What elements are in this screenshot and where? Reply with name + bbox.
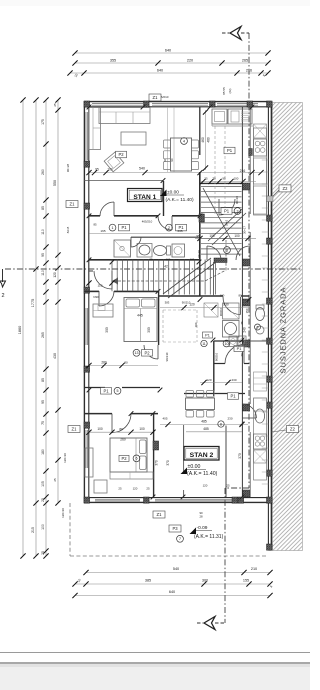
svg-text:120×30: 120×30 bbox=[63, 453, 67, 463]
interior vdim kitchen bbox=[205, 110, 207, 170]
svg-text:1775: 1775 bbox=[31, 299, 35, 307]
stairs walk line bbox=[118, 240, 226, 281]
kitchen sink unit bbox=[228, 109, 252, 124]
door bedroom1-hall bbox=[144, 345, 158, 359]
svg-text:300: 300 bbox=[147, 327, 151, 333]
hatched band SUSJEDNA ZGRADA bbox=[272, 103, 302, 551]
svg-text:9: 9 bbox=[257, 325, 259, 329]
svg-text:180: 180 bbox=[41, 449, 45, 455]
svg-text:445: 445 bbox=[137, 313, 143, 317]
wall block stairhall bbox=[199, 214, 204, 222]
label P1 hall b bbox=[176, 224, 187, 231]
svg-text:42: 42 bbox=[164, 264, 168, 268]
exterior wall top bbox=[84, 101, 271, 103]
svg-text:370: 370 bbox=[155, 460, 159, 466]
label P3 circ7 bbox=[169, 525, 181, 532]
footer gray band bbox=[0, 664, 310, 690]
svg-text:160: 160 bbox=[220, 294, 225, 298]
window glazing bottom bbox=[95, 498, 140, 500]
svg-text:P1: P1 bbox=[205, 334, 210, 338]
svg-text:85 55: 85 55 bbox=[222, 87, 226, 95]
svg-text:165: 165 bbox=[100, 229, 105, 233]
label P1 hall a bbox=[119, 224, 130, 231]
svg-text:430: 430 bbox=[53, 353, 57, 359]
wall dining right bbox=[225, 426, 227, 498]
svg-text:265: 265 bbox=[41, 332, 45, 338]
bedroom2 dim row bbox=[89, 431, 153, 433]
stairs lower flight steps bbox=[111, 260, 113, 292]
label P1 stair bbox=[221, 208, 232, 215]
svg-text:100: 100 bbox=[139, 427, 145, 431]
circled 3 stairs bbox=[224, 247, 231, 254]
svg-text:95: 95 bbox=[222, 177, 226, 181]
toilet bath2 bbox=[256, 308, 265, 321]
right wall coursing bbox=[262, 159, 269, 161]
wall bedroom1 top bbox=[84, 290, 99, 292]
svg-text:80: 80 bbox=[238, 294, 242, 298]
section line 1-1 vertical bbox=[248, 33, 250, 488]
door bath2 main bbox=[223, 297, 241, 315]
svg-text:-0.09: -0.09 bbox=[197, 525, 208, 531]
wall living/hall horiz bbox=[84, 180, 163, 182]
svg-text:8: 8 bbox=[220, 422, 222, 426]
svg-text:P3: P3 bbox=[172, 526, 178, 531]
wall block bedroom2 bbox=[153, 441, 159, 450]
wall bath2 bottom bbox=[214, 340, 249, 342]
elevation STAN1 bbox=[160, 190, 167, 197]
armchair bbox=[104, 152, 124, 172]
toilet bath1 bbox=[154, 246, 167, 256]
svg-text:100: 100 bbox=[234, 234, 240, 238]
top dim row 2 bbox=[75, 62, 268, 64]
sofa L vertical bbox=[89, 108, 101, 150]
svg-text:230: 230 bbox=[227, 416, 232, 420]
svg-text:95: 95 bbox=[41, 400, 45, 404]
dashed overhang outline bbox=[69, 503, 71, 556]
svg-text:405: 405 bbox=[162, 416, 167, 420]
wall kitchen double b bbox=[249, 107, 251, 214]
kitchen2 fridge bbox=[254, 450, 267, 463]
svg-text:90×28: 90×28 bbox=[66, 164, 70, 173]
svg-text:(A.K.= 11.40): (A.K.= 11.40) bbox=[166, 197, 194, 203]
bottom dim row 3 bbox=[75, 595, 270, 597]
svg-text:10: 10 bbox=[225, 342, 229, 346]
svg-text:95: 95 bbox=[41, 253, 45, 257]
svg-text:N90: N90 bbox=[93, 295, 99, 299]
wall hall3 horiz bbox=[184, 393, 245, 395]
svg-text:P1: P1 bbox=[230, 394, 236, 399]
label P2 circ6 bed2 bbox=[119, 455, 129, 461]
svg-text:2: 2 bbox=[237, 209, 239, 213]
exterior wall bottom bbox=[84, 501, 271, 503]
svg-text:640: 640 bbox=[157, 69, 163, 73]
svg-text:640: 640 bbox=[165, 49, 171, 53]
svg-text:110: 110 bbox=[41, 229, 45, 235]
dining dim row2 bbox=[186, 431, 242, 433]
door stair top bbox=[219, 199, 235, 215]
svg-text:7: 7 bbox=[179, 537, 181, 541]
terrace right wall bbox=[268, 502, 271, 504]
door kitchen-dining bbox=[242, 404, 256, 418]
wall laundry left bbox=[213, 341, 215, 396]
wall v living-right bbox=[163, 181, 165, 216]
svg-text:±0.00: ±0.00 bbox=[167, 189, 179, 195]
circled 4 bbox=[181, 138, 188, 145]
kitchen2 hob bbox=[254, 434, 267, 449]
svg-text:95: 95 bbox=[196, 234, 200, 238]
section marker left bbox=[2, 269, 4, 282]
svg-text:Z2: Z2 bbox=[290, 427, 296, 432]
svg-text:90/210: 90/210 bbox=[219, 307, 223, 316]
svg-text:25: 25 bbox=[53, 478, 57, 482]
svg-text:230: 230 bbox=[223, 303, 229, 307]
kitchen right strip bbox=[254, 128, 267, 215]
kitchen fridge bbox=[254, 124, 267, 138]
svg-text:640: 640 bbox=[169, 590, 175, 594]
door hall-kitchen bbox=[158, 216, 172, 230]
stairs upper flight steps bbox=[201, 186, 242, 188]
svg-text:150: 150 bbox=[245, 308, 249, 313]
svg-text:85: 85 bbox=[41, 206, 45, 210]
svg-text:90/210: 90/210 bbox=[165, 352, 169, 361]
svg-text:2: 2 bbox=[1, 293, 4, 299]
dining table 2 bbox=[186, 398, 215, 410]
circled 9 toilet bbox=[255, 324, 261, 330]
svg-text:STAN 2: STAN 2 bbox=[190, 452, 214, 459]
coffee table bbox=[121, 132, 146, 145]
shower bath2b bbox=[204, 303, 218, 317]
svg-text:Z1: Z1 bbox=[157, 512, 163, 517]
washbasin bath2 bbox=[223, 321, 240, 338]
wall hall top bbox=[89, 215, 100, 217]
door bedroom2 bbox=[112, 414, 131, 433]
svg-text:260: 260 bbox=[120, 438, 126, 442]
left dim chain 3 bbox=[45, 100, 47, 556]
svg-text:550: 550 bbox=[53, 180, 57, 186]
window label Z1 left b bbox=[68, 426, 80, 433]
svg-text:95: 95 bbox=[149, 257, 153, 261]
wall stairhall top bbox=[200, 182, 242, 184]
svg-text:540: 540 bbox=[173, 567, 179, 571]
top dim row 3 bbox=[70, 72, 268, 74]
wall bedroom2 top bbox=[84, 413, 112, 415]
washer dryer bbox=[229, 336, 237, 347]
svg-text:100: 100 bbox=[97, 427, 103, 431]
wardrobe 2 bbox=[85, 448, 93, 477]
door stair bottom b bbox=[236, 246, 250, 260]
svg-text:3: 3 bbox=[226, 248, 228, 252]
svg-text:85: 85 bbox=[41, 378, 45, 382]
svg-text:215: 215 bbox=[31, 527, 35, 533]
block kitchen wall bbox=[249, 149, 253, 156]
stairs break line upper bbox=[212, 213, 246, 245]
svg-text:230: 230 bbox=[231, 378, 236, 382]
section marker bottom bbox=[204, 617, 215, 630]
svg-text:485: 485 bbox=[201, 419, 207, 423]
svg-text:25: 25 bbox=[118, 486, 122, 490]
bed 1 bbox=[124, 298, 157, 342]
label P1 hall2 bbox=[203, 332, 213, 338]
svg-text:335: 335 bbox=[177, 229, 182, 233]
left dim chain 4 bbox=[57, 100, 59, 503]
svg-text:4: 4 bbox=[183, 139, 185, 143]
door hall-living bbox=[100, 202, 114, 216]
svg-text:90/210: 90/210 bbox=[215, 352, 219, 361]
svg-text:25: 25 bbox=[53, 103, 57, 107]
stairs upper diagonal bbox=[203, 188, 240, 256]
svg-text:100: 100 bbox=[234, 177, 239, 181]
label P1 kitchen bbox=[224, 147, 235, 154]
svg-text:95: 95 bbox=[95, 168, 99, 172]
interior dim row stairtop bbox=[200, 180, 256, 182]
label 13 P2 bbox=[133, 349, 140, 356]
label P2 living bbox=[116, 151, 127, 158]
footer rule 1 bbox=[0, 652, 310, 654]
boiler circle bbox=[256, 326, 264, 334]
wall bedroom1 right bbox=[158, 291, 160, 345]
svg-text:70: 70 bbox=[212, 177, 216, 181]
svg-text:1: 1 bbox=[112, 226, 114, 230]
svg-text:Z1: Z1 bbox=[153, 95, 159, 100]
svg-text:90×28: 90×28 bbox=[235, 196, 239, 204]
label Z2 right b bbox=[287, 426, 299, 433]
junction ticks bbox=[87, 105, 92, 110]
desk bedroom2 bbox=[110, 472, 153, 479]
svg-text:(2x): (2x) bbox=[228, 89, 232, 94]
window label Z1 left a bbox=[66, 201, 78, 208]
bottom dim row 2 bbox=[75, 583, 270, 585]
svg-text:90×28: 90×28 bbox=[197, 250, 201, 258]
dim 165 hall bbox=[89, 232, 200, 234]
wall block stair bbox=[214, 258, 227, 263]
dining dim row bbox=[160, 423, 248, 425]
door bedroom1 bbox=[99, 291, 114, 306]
elevation STAN2 bbox=[181, 468, 188, 475]
svg-text:120: 120 bbox=[133, 486, 138, 490]
label P1 circ5 bbox=[101, 388, 112, 395]
svg-text:120×30: 120×30 bbox=[61, 508, 65, 518]
dining ext lines bbox=[167, 107, 169, 172]
wall column blocks bbox=[84, 101, 90, 107]
svg-text:265: 265 bbox=[242, 59, 248, 63]
svg-text:70: 70 bbox=[240, 353, 244, 357]
svg-text:30×2: 30×2 bbox=[225, 219, 229, 226]
svg-text:Z2: Z2 bbox=[283, 186, 289, 191]
shower bath1 bbox=[114, 240, 131, 257]
svg-text:260: 260 bbox=[41, 169, 45, 175]
svg-text:105: 105 bbox=[41, 481, 45, 487]
svg-text:220: 220 bbox=[187, 59, 193, 63]
svg-text:90/210: 90/210 bbox=[182, 300, 191, 304]
svg-text:25: 25 bbox=[41, 498, 45, 502]
kitchen lower units bbox=[254, 158, 267, 184]
section marker top bbox=[230, 27, 241, 40]
kitchen upper cabinet bbox=[212, 109, 227, 124]
kitchen2 strip bbox=[254, 398, 267, 480]
label Z1 bottom bbox=[153, 511, 165, 518]
svg-text:Z1: Z1 bbox=[70, 202, 76, 207]
svg-text:P1: P1 bbox=[227, 148, 233, 153]
window label Z1 top bbox=[149, 94, 161, 101]
svg-text:1860: 1860 bbox=[18, 326, 22, 334]
door under stair bbox=[94, 271, 112, 289]
svg-text:75: 75 bbox=[41, 421, 45, 425]
svg-text:465/210: 465/210 bbox=[142, 219, 153, 223]
svg-text:485: 485 bbox=[203, 427, 209, 431]
svg-text:300: 300 bbox=[105, 327, 109, 333]
wall hall2 horiz bbox=[84, 387, 105, 389]
svg-text:25: 25 bbox=[204, 177, 208, 181]
svg-text:STAN 1: STAN 1 bbox=[133, 194, 156, 201]
svg-text:240: 240 bbox=[243, 327, 247, 333]
svg-text:±0.00: ±0.00 bbox=[188, 464, 201, 470]
interior dim row b1 bbox=[160, 307, 248, 309]
svg-text:P2: P2 bbox=[121, 456, 127, 461]
svg-text:80: 80 bbox=[124, 360, 128, 364]
stairs dim row bbox=[195, 237, 256, 239]
label Z2 right a bbox=[279, 185, 291, 192]
bed 2 bbox=[110, 438, 147, 472]
kitchen2 sink bbox=[255, 409, 265, 423]
washbasin bath1 bbox=[137, 244, 152, 258]
left dim chain 2 bbox=[35, 100, 37, 556]
svg-text:25: 25 bbox=[146, 486, 150, 490]
svg-text:13: 13 bbox=[135, 351, 139, 355]
svg-text:P2: P2 bbox=[118, 152, 124, 157]
svg-text:100: 100 bbox=[166, 257, 171, 261]
interior dim row living bbox=[89, 172, 261, 174]
dining table 1 bbox=[171, 138, 192, 171]
svg-text:383: 383 bbox=[165, 300, 170, 304]
svg-text:82×8: 82×8 bbox=[66, 226, 70, 233]
svg-text:2: 2 bbox=[168, 226, 170, 230]
svg-text:190: 190 bbox=[194, 322, 198, 327]
svg-text:100: 100 bbox=[190, 257, 195, 261]
svg-text:175: 175 bbox=[41, 119, 45, 125]
svg-text:P1: P1 bbox=[224, 209, 230, 214]
svg-text:120: 120 bbox=[206, 378, 211, 382]
stairs landing line bbox=[213, 262, 215, 296]
svg-text:100: 100 bbox=[41, 524, 45, 530]
svg-text:5: 5 bbox=[117, 389, 119, 393]
svg-text:370: 370 bbox=[238, 453, 242, 459]
svg-text:100: 100 bbox=[209, 234, 215, 238]
svg-text:100: 100 bbox=[107, 168, 113, 172]
wall bath1 bottom bbox=[89, 259, 200, 261]
wall bedroom2 right bbox=[153, 413, 155, 497]
wall blocks kitchen wall bbox=[243, 183, 250, 190]
svg-text:Z1: Z1 bbox=[72, 427, 78, 432]
washer bath1 bbox=[172, 244, 185, 257]
svg-text:SUSJEDNA ZGRADA: SUSJEDNA ZGRADA bbox=[279, 287, 288, 374]
circled 10 and P1 bbox=[223, 340, 230, 347]
stairs break line bbox=[168, 262, 216, 298]
svg-text:480: 480 bbox=[207, 137, 211, 143]
svg-text:120: 120 bbox=[53, 272, 57, 278]
label STAN 1 bbox=[128, 189, 163, 202]
footer rule 2 bbox=[0, 662, 310, 664]
svg-text:P1: P1 bbox=[103, 388, 109, 393]
left dim chain 1 bbox=[22, 100, 24, 556]
closet dashes hall bbox=[162, 310, 164, 342]
wall kitchen double a bbox=[241, 107, 243, 497]
wall bath1 top bbox=[131, 236, 200, 238]
kitchen2 cab bbox=[254, 398, 267, 411]
wardrobe 1 bbox=[93, 304, 113, 317]
svg-text:110: 110 bbox=[98, 284, 103, 288]
bottom dim row 1 bbox=[86, 572, 270, 574]
wall stair bottom right bbox=[158, 295, 223, 297]
wall dining left bbox=[183, 425, 185, 472]
kitchen dashes bbox=[214, 126, 216, 214]
svg-text:216: 216 bbox=[240, 169, 246, 173]
svg-text:120: 120 bbox=[203, 483, 208, 487]
hall2 dim row bbox=[200, 382, 242, 384]
wall laundry bottom bbox=[214, 363, 225, 365]
label P1 dining bbox=[228, 393, 239, 400]
sofa L horizontal bbox=[99, 108, 150, 124]
door laundry bbox=[225, 345, 244, 364]
door stair bottom a bbox=[207, 246, 221, 260]
svg-text:355: 355 bbox=[110, 59, 116, 63]
svg-text:P2: P2 bbox=[144, 350, 150, 355]
kitchen hob bbox=[254, 139, 267, 156]
svg-text:460: 460 bbox=[201, 137, 205, 143]
svg-text:110: 110 bbox=[41, 270, 45, 276]
svg-text:210: 210 bbox=[251, 567, 257, 571]
elevation terrace bbox=[190, 528, 197, 535]
label STAN 2 bbox=[184, 447, 219, 461]
svg-text:370: 370 bbox=[166, 460, 170, 466]
svg-text:300: 300 bbox=[202, 579, 208, 583]
svg-text:75: 75 bbox=[240, 321, 244, 325]
svg-text:28: 28 bbox=[199, 515, 203, 519]
door bath1 bbox=[131, 237, 141, 247]
nightstand bbox=[94, 480, 107, 493]
window glazing left bbox=[85, 112, 87, 160]
svg-text:540: 540 bbox=[139, 166, 145, 170]
exterior wall left bbox=[83, 101, 85, 503]
window glazing top bbox=[92, 102, 143, 104]
wall under-stair door bbox=[89, 270, 93, 272]
svg-text:P1: P1 bbox=[237, 347, 242, 351]
section line 2-2 horizontal bbox=[5, 268, 302, 270]
svg-text:80: 80 bbox=[119, 427, 123, 431]
top light strip bbox=[0, 0, 310, 6]
svg-text:11: 11 bbox=[202, 342, 206, 346]
svg-text:85: 85 bbox=[93, 222, 97, 226]
svg-text:25: 25 bbox=[41, 551, 45, 555]
svg-text:6: 6 bbox=[136, 457, 138, 461]
shower bath2 bbox=[223, 303, 240, 319]
svg-text:280: 280 bbox=[101, 360, 107, 364]
svg-text:25: 25 bbox=[226, 483, 230, 487]
exterior wall right bbox=[267, 101, 269, 550]
svg-text:30×17: 30×17 bbox=[243, 226, 247, 234]
interior dim row hall bbox=[89, 364, 158, 366]
top dim row 1 bbox=[75, 52, 268, 54]
kitchen counter line bbox=[212, 125, 253, 127]
wall stairhall left bbox=[199, 107, 201, 155]
svg-text:P1: P1 bbox=[121, 225, 127, 230]
svg-text:(A.K.= 11.40): (A.K.= 11.40) bbox=[187, 471, 218, 477]
svg-text:(A.K.= 11.31): (A.K.= 11.31) bbox=[194, 534, 224, 540]
svg-text:385: 385 bbox=[145, 579, 151, 583]
svg-text:155: 155 bbox=[243, 579, 249, 583]
